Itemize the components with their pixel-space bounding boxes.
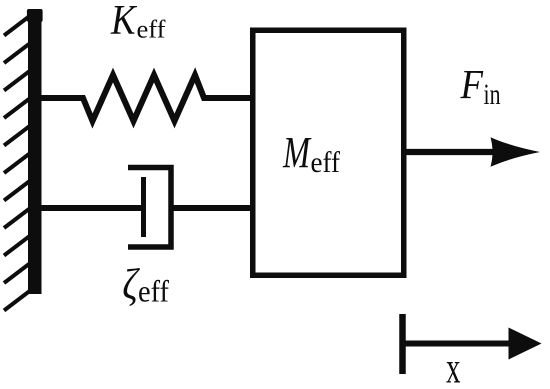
svg-text:x: x bbox=[446, 344, 461, 389]
svg-text:in: in bbox=[484, 78, 501, 111]
svg-text:K: K bbox=[110, 0, 137, 44]
svg-text:eff: eff bbox=[138, 274, 170, 309]
svg-text:eff: eff bbox=[137, 15, 167, 44]
svg-text:F: F bbox=[460, 61, 484, 107]
svg-text:M: M bbox=[282, 128, 311, 177]
svg-text:eff: eff bbox=[311, 146, 341, 179]
